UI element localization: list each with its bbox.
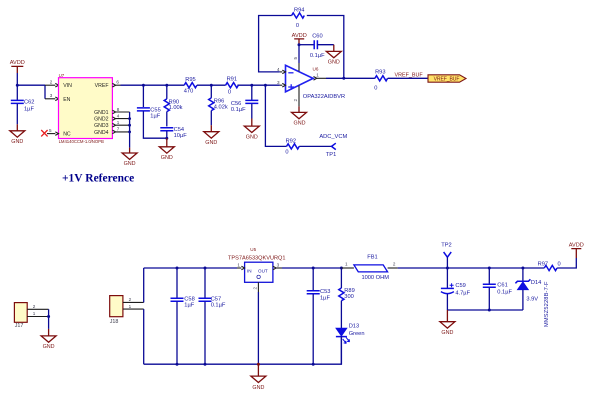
capacitor C62 — [11, 85, 35, 124]
svg-text:U6: U6 — [313, 67, 319, 72]
test point TP2 — [441, 242, 451, 268]
svg-text:3.9V: 3.9V — [526, 297, 538, 303]
svg-text:R94: R94 — [294, 7, 304, 13]
ground GND (bottom rail) — [251, 364, 266, 391]
wire main VREF rail — [121, 84, 280, 86]
wire zener bottom rail — [447, 309, 523, 311]
svg-text:GND: GND — [328, 60, 340, 66]
port VREF_BUF tag — [428, 75, 466, 83]
node op-amp supply junction — [298, 43, 301, 46]
wire AVDD to rail — [16, 73, 18, 85]
node C58 bottom — [176, 363, 179, 366]
svg-text:1µF: 1µF — [320, 295, 330, 301]
node R89 branch — [340, 267, 343, 270]
node C56 — [250, 84, 253, 87]
wire bottom return rail — [144, 337, 342, 365]
node C55/C54 ground join — [165, 137, 168, 140]
svg-text:2: 2 — [129, 297, 132, 302]
svg-text:AVDD: AVDD — [10, 60, 25, 66]
pin 1 output stub — [314, 72, 327, 80]
svg-text:5: 5 — [293, 57, 298, 60]
node C55 — [142, 84, 145, 87]
ground GND (C60) — [326, 45, 341, 66]
pin 5 positive supply — [293, 45, 299, 72]
resistor R95 470 — [184, 77, 197, 94]
svg-text:C58: C58 — [184, 296, 194, 302]
U5 pin 3 stub — [273, 262, 282, 269]
svg-text:C57: C57 — [211, 296, 221, 302]
pin 3 EN stub — [45, 93, 59, 100]
capacitor C56 — [231, 85, 258, 118]
svg-text:0: 0 — [285, 150, 288, 156]
svg-text:1: 1 — [33, 311, 36, 316]
ferrite bead FB1 — [341, 254, 397, 281]
node C53 bottom — [312, 363, 315, 366]
capacitor C60 — [299, 34, 334, 59]
svg-text:EN: EN — [63, 97, 70, 103]
wire to TP1 — [299, 145, 331, 147]
svg-text:MMSZ5228B-7-F: MMSZ5228B-7-F — [544, 281, 550, 327]
connector J17 — [14, 303, 27, 330]
node R90 — [165, 84, 168, 87]
svg-text:3: 3 — [50, 93, 53, 98]
svg-text:0.1µF: 0.1µF — [497, 290, 512, 296]
pin 2 negative supply — [293, 85, 299, 106]
svg-text:0: 0 — [296, 23, 299, 29]
svg-text:IN: IN — [247, 268, 252, 273]
svg-text:1: 1 — [237, 262, 240, 267]
svg-text:TP2: TP2 — [441, 242, 451, 248]
wire R93 to VREF_BUF port — [388, 77, 428, 79]
capacitor C57 — [199, 268, 226, 364]
capacitor C61 — [483, 268, 513, 310]
regulator U5 TPS7A6533 — [228, 247, 286, 282]
node D14 — [521, 267, 524, 270]
J18 pin 1 — [123, 304, 144, 309]
svg-text:GND: GND — [11, 139, 23, 145]
svg-text:U7: U7 — [59, 73, 65, 78]
node C57 bottom — [204, 363, 207, 366]
U5 pin 1 stub — [237, 262, 245, 269]
node C61 — [488, 267, 491, 270]
pin 4 inverting input — [277, 67, 285, 74]
capacitor C53 — [307, 268, 331, 364]
resistor R94 0 — [292, 7, 305, 29]
svg-text:GND3: GND3 — [94, 123, 109, 129]
wire J17 pins to ground — [48, 309, 50, 329]
svg-text:VREF: VREF — [95, 83, 109, 89]
pin 6 VREF stub — [112, 80, 120, 87]
node U5 gnd bottom — [257, 363, 260, 366]
node J17 join — [47, 315, 50, 318]
node C53 top — [312, 267, 315, 270]
svg-text:GND2: GND2 — [94, 117, 109, 123]
ground GND (under C56) — [244, 119, 259, 141]
capacitor C59 4.7uF polarized — [441, 268, 471, 310]
J17 pin 2 — [27, 304, 48, 309]
svg-text:+1V Reference: +1V Reference — [62, 172, 134, 184]
svg-text:R89: R89 — [344, 288, 354, 294]
power AVDD (right) — [569, 242, 584, 258]
svg-text:0: 0 — [374, 86, 377, 92]
svg-text:470: 470 — [184, 89, 194, 95]
U5 pin 2 ground — [252, 282, 258, 364]
svg-text:J18: J18 — [110, 319, 119, 325]
ground GND (under U7 pins) — [122, 148, 137, 168]
svg-text:300: 300 — [344, 294, 354, 300]
wire J18 pin1 down to bottom rail — [143, 309, 145, 364]
svg-text:4.7µF: 4.7µF — [455, 291, 470, 297]
svg-text:VIN: VIN — [63, 83, 72, 89]
wire to U7 VIN/EN — [17, 85, 45, 99]
svg-text:FB1: FB1 — [367, 254, 377, 260]
svg-text:GND: GND — [294, 121, 306, 127]
svg-text:Green: Green — [349, 331, 365, 337]
svg-text:LM4140CCM-1.0/NOPB: LM4140CCM-1.0/NOPB — [59, 139, 104, 144]
node feedback/output junction — [342, 77, 345, 80]
svg-text:3: 3 — [277, 262, 280, 267]
svg-text:C54: C54 — [174, 127, 184, 133]
svg-text:GND: GND — [246, 135, 258, 141]
wire feedback loop — [259, 16, 344, 79]
wire IC GND pins to ground — [129, 112, 131, 148]
svg-text:R91: R91 — [227, 77, 237, 83]
svg-text:0.1µF: 0.1µF — [310, 53, 325, 59]
wire J18 pin2 up to rail — [143, 268, 145, 302]
node R96 — [210, 84, 213, 87]
J18 pin 2 — [123, 297, 144, 302]
node C61 bottom — [488, 309, 491, 312]
svg-text:1000 OHM: 1000 OHM — [361, 275, 389, 281]
node C58 top — [176, 267, 179, 270]
test point TP1 — [326, 143, 336, 158]
ground GND (J17) — [41, 329, 56, 350]
svg-text:4.02k: 4.02k — [214, 105, 228, 111]
pin 2 VIN stub — [45, 80, 59, 87]
svg-text:GND4: GND4 — [94, 130, 109, 136]
svg-text:10µF: 10µF — [174, 133, 188, 139]
capacitor C58 — [171, 268, 195, 364]
svg-text:D13: D13 — [349, 323, 359, 329]
svg-text:1µF: 1µF — [150, 113, 160, 119]
svg-text:C60: C60 — [312, 34, 322, 40]
node R92 branch — [264, 84, 267, 87]
node pin4 tee — [128, 117, 131, 120]
svg-text:2: 2 — [293, 99, 298, 102]
svg-text:AVDD: AVDD — [569, 242, 584, 248]
ground GND (under R96) — [204, 125, 219, 146]
svg-text:7: 7 — [117, 127, 120, 132]
svg-text:U5: U5 — [250, 247, 256, 252]
svg-text:NC: NC — [63, 132, 71, 138]
svg-text:GND1: GND1 — [94, 110, 109, 116]
svg-text:OPA322AIDBVR: OPA322AIDBVR — [303, 94, 345, 100]
pins 8 4 1 7 GND stubs — [112, 107, 129, 134]
pin 5 NC no-connect — [41, 128, 58, 137]
node pin7 tee — [128, 131, 131, 134]
resistor R89 300 — [339, 268, 355, 328]
svg-text:ADC_VCM: ADC_VCM — [319, 134, 347, 140]
svg-text:1: 1 — [117, 120, 120, 125]
svg-text:1: 1 — [129, 304, 132, 309]
wire AVDD rail — [398, 267, 545, 269]
resistor R91 0 — [226, 77, 239, 96]
resistor R90 1.00k — [164, 85, 182, 126]
svg-text:GND: GND — [124, 161, 136, 167]
svg-text:OUT: OUT — [258, 268, 268, 273]
svg-text:5: 5 — [49, 128, 52, 133]
svg-text:2: 2 — [252, 287, 257, 290]
svg-text:4: 4 — [277, 67, 280, 72]
svg-text:0.1µF: 0.1µF — [231, 107, 246, 113]
capacitor C55 — [137, 85, 167, 138]
svg-text:VREF_BUF: VREF_BUF — [395, 73, 424, 79]
svg-text:C59: C59 — [455, 283, 465, 289]
svg-text:VREF_BUF: VREF_BUF — [434, 77, 460, 83]
svg-text:1µF: 1µF — [184, 303, 194, 309]
LED D13 Green — [336, 323, 365, 364]
op-amp U6 — [286, 65, 346, 100]
svg-text:0: 0 — [228, 89, 231, 95]
svg-text:R95: R95 — [185, 77, 195, 83]
zener diode D14 3.9V — [515, 268, 549, 327]
IC U7 LM4140 — [59, 73, 113, 144]
ground GND (under C54) — [159, 138, 174, 161]
resistor R92 0 — [285, 138, 299, 155]
svg-text:C62: C62 — [24, 99, 34, 105]
svg-text:GND: GND — [43, 344, 55, 350]
node pin1 tee — [128, 124, 131, 127]
wire R97 to AVDD — [557, 258, 576, 268]
svg-text:GND: GND — [205, 140, 217, 146]
svg-text:6: 6 — [116, 80, 119, 85]
resistor R96 4.02k — [209, 85, 228, 125]
svg-text:TPS7A6533QKVURQ1: TPS7A6533QKVURQ1 — [228, 255, 286, 261]
node TP2/C59 — [446, 267, 449, 270]
svg-text:3: 3 — [277, 80, 280, 85]
resistor R97 0 — [538, 261, 561, 270]
svg-text:0: 0 — [558, 261, 561, 267]
ground GND (under op-amp) — [292, 106, 307, 126]
power AVDD (top-left) — [10, 60, 25, 73]
J17 pin 1 — [27, 311, 48, 316]
svg-text:2: 2 — [393, 261, 396, 266]
svg-text:2: 2 — [33, 304, 36, 309]
svg-text:D14: D14 — [531, 280, 541, 286]
svg-text:GND: GND — [252, 385, 264, 391]
wire input rail — [144, 267, 237, 269]
node C57 top — [204, 267, 207, 270]
svg-text:1µF: 1µF — [24, 107, 34, 113]
svg-text:C61: C61 — [497, 283, 507, 289]
svg-text:4: 4 — [117, 113, 120, 118]
node junction at AVDD/C62 — [16, 84, 19, 87]
svg-text:R92: R92 — [286, 138, 296, 144]
svg-text:1: 1 — [345, 261, 348, 266]
svg-text:2: 2 — [50, 80, 53, 85]
wire output rail to FB1 — [282, 267, 341, 269]
ground GND (C59 C61 D14) — [440, 310, 455, 336]
pin 3 non-inverting input — [277, 80, 285, 87]
svg-text:R93: R93 — [375, 70, 385, 76]
power AVDD (op-amp supply) — [292, 33, 307, 45]
svg-text:C53: C53 — [320, 289, 330, 295]
ground GND (under C62) — [10, 124, 25, 145]
svg-text:R97: R97 — [538, 261, 548, 267]
svg-text:J17: J17 — [15, 323, 24, 329]
wire R92 branch — [265, 85, 286, 146]
svg-text:1.00k: 1.00k — [169, 105, 183, 111]
resistor R93 0 — [374, 70, 387, 92]
svg-text:8: 8 — [117, 107, 120, 112]
connector J18 — [110, 296, 123, 325]
wire output to R93 — [326, 77, 375, 79]
capacitor C54 — [160, 127, 187, 139]
svg-text:GND: GND — [441, 330, 453, 336]
svg-text:GND: GND — [161, 155, 173, 161]
svg-text:TP1: TP1 — [326, 152, 336, 158]
svg-text:1: 1 — [316, 72, 319, 77]
svg-text:0.1µF: 0.1µF — [211, 303, 226, 309]
